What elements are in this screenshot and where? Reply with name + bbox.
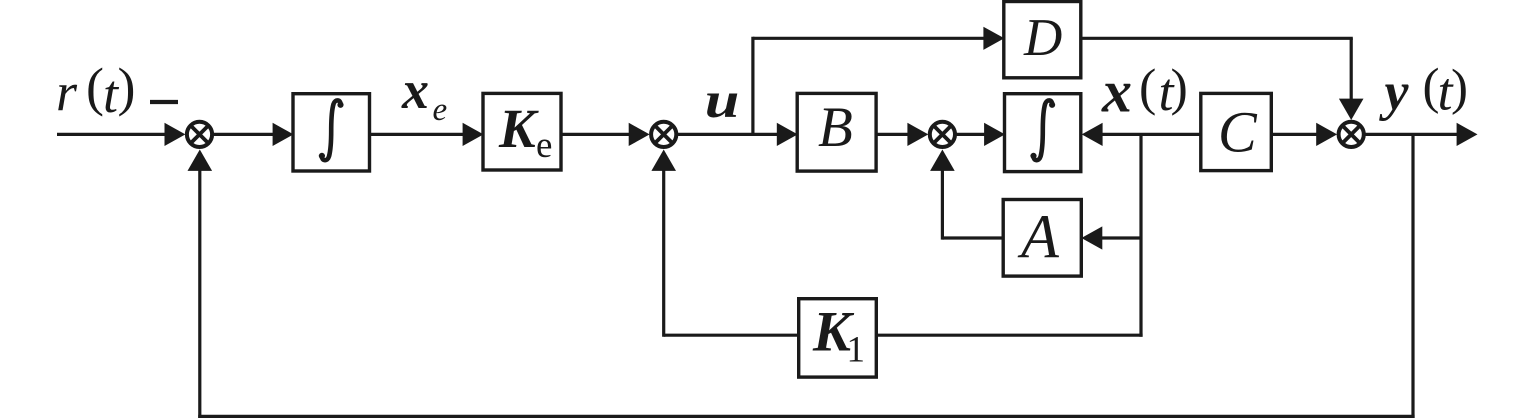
svg-text:e: e (433, 92, 448, 128)
block A (1003, 200, 1081, 277)
wire B to S3 (876, 133, 912, 136)
svg-text:K: K (498, 98, 539, 159)
integrator block 1 (293, 94, 370, 171)
svg-text:): ) (1171, 60, 1188, 117)
wire x branch down (1139, 134, 1142, 336)
svg-text:A: A (1017, 204, 1060, 272)
wire y feedback branch down (1411, 134, 1414, 418)
svg-text:B: B (818, 96, 853, 159)
svg-text:D: D (1023, 9, 1062, 67)
svg-text:u: u (705, 72, 740, 128)
wire to D (753, 37, 987, 40)
svg-text:(: ( (86, 57, 104, 117)
block B (797, 93, 876, 171)
wire x(t) with left arrow into integrator 2 (1082, 123, 1103, 146)
svg-text:C: C (1218, 100, 1258, 165)
wire into A (1100, 236, 1141, 239)
node S1 summing junction (187, 122, 212, 147)
node S4 summing junction (1339, 122, 1364, 147)
block Ke (483, 93, 561, 170)
wire Ke to S2 (561, 133, 634, 136)
svg-text:x: x (401, 60, 429, 120)
wire S3 to integrator 2 (956, 133, 988, 136)
svg-text:): ) (118, 57, 136, 117)
svg-text:y: y (1379, 62, 1410, 122)
wire up to S1 (198, 168, 201, 418)
wire A to S3 (942, 236, 1003, 239)
node S2 summing junction (651, 122, 676, 147)
block K1 (799, 299, 877, 377)
wire K1 to S2 (664, 334, 799, 337)
node S3 summing junction (930, 122, 955, 147)
wire bottom feedback (198, 415, 1414, 418)
svg-text:(: ( (1139, 60, 1156, 117)
svg-text:x: x (1101, 59, 1132, 125)
wire C to S4 (1271, 133, 1321, 136)
wire S1 to integrator 1 (214, 133, 278, 136)
wire output y(t) (1365, 133, 1460, 136)
svg-text:e: e (536, 125, 552, 166)
wire S2 to B (678, 133, 781, 136)
wire input r(t) (57, 133, 170, 136)
minus sign (150, 100, 178, 104)
integrator block 2 (1005, 94, 1081, 172)
block C (1201, 93, 1272, 170)
svg-text:): ) (1451, 60, 1468, 116)
wire integrator1 to Ke (370, 133, 468, 136)
wire D to S4 (1081, 37, 1353, 40)
svg-text:1: 1 (847, 330, 866, 371)
svg-text:r: r (56, 62, 78, 122)
wire x branch to K1 (876, 334, 1142, 337)
block D (1004, 2, 1081, 78)
wire branch u up to D (751, 37, 754, 135)
